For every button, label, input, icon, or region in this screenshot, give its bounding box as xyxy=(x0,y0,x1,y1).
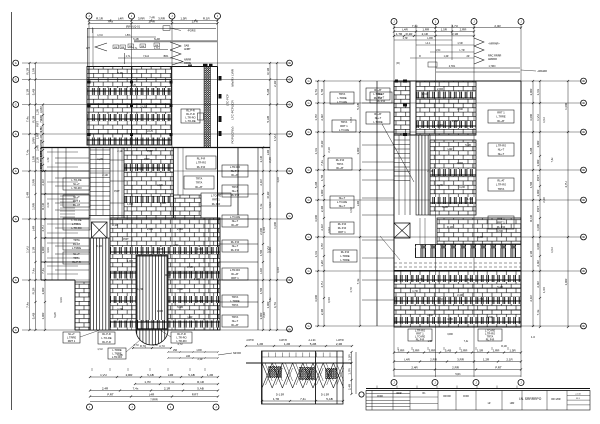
svg-text:1,7R: 1,7R xyxy=(137,287,143,291)
big bottom brick block xyxy=(110,218,220,330)
detail small circle xyxy=(359,392,364,397)
svg-text:2,1R: 2,1R xyxy=(506,358,513,362)
svg-text:1,5C: 1,5C xyxy=(436,50,441,52)
svg-text:5,AB: 5,AB xyxy=(326,397,333,401)
svg-text:2-U5: 2-U5 xyxy=(147,129,153,133)
svg-text:NL+T: NL+T xyxy=(232,189,239,193)
left plan grid bubbles bottom xyxy=(87,404,93,410)
svg-text:L4R: L4R xyxy=(186,356,191,358)
svg-text:7,4x: 7,4x xyxy=(536,309,540,315)
svg-text:G: G xyxy=(308,236,310,239)
svg-text:3,RR: 3,RR xyxy=(60,297,63,303)
svg-text:L4R: L4R xyxy=(149,393,155,397)
svg-text:1,VU: 1,VU xyxy=(26,246,30,253)
svg-text:2,RR: 2,RR xyxy=(529,88,533,96)
svg-text:2,4R: 2,4R xyxy=(36,145,40,151)
svg-text:1,2R: 1,2R xyxy=(348,354,352,361)
svg-text:1,7L: 1,7L xyxy=(126,55,131,58)
svg-text:2,RR: 2,RR xyxy=(430,358,438,362)
dashed lines xyxy=(394,262,521,264)
svg-text:R,1R: R,1R xyxy=(406,32,414,36)
left plan grid bubbles left column xyxy=(13,60,19,66)
svg-text:RL-AT: RL-AT xyxy=(336,166,344,170)
svg-text:2,RR: 2,RR xyxy=(126,373,134,377)
svg-text:5,R1: 5,R1 xyxy=(455,373,461,376)
svg-text:RL.P-R: RL.P-R xyxy=(186,112,195,116)
svg-text:RL.P-R: RL.P-R xyxy=(186,109,195,113)
svg-text:1,VU: 1,VU xyxy=(422,92,428,96)
svg-text:G: G xyxy=(308,270,310,273)
mid brick right extension xyxy=(174,195,202,218)
svg-text:RL-AT: RL-AT xyxy=(497,119,505,123)
svg-text:7,4x: 7,4x xyxy=(169,380,175,384)
svg-text:5,AB: 5,AB xyxy=(529,148,533,155)
svg-text:1,7RO: 1,7RO xyxy=(489,65,496,68)
central mid brick block xyxy=(124,148,174,219)
svg-text:1,5R: 1,5R xyxy=(32,155,36,162)
svg-text:2,4R: 2,4R xyxy=(320,308,324,315)
svg-text:1,5R: 1,5R xyxy=(457,107,463,111)
svg-text:1,RR: 1,RR xyxy=(564,102,568,110)
svg-text:NL+T: NL+T xyxy=(73,182,80,186)
leader crossing xyxy=(382,124,414,182)
dark dashes above strip xyxy=(203,64,208,66)
leader to label PORS xyxy=(170,28,181,31)
svg-text:xRR: xRR xyxy=(510,403,515,405)
table row lines left block xyxy=(366,393,410,395)
svg-text:1,2R: 1,2R xyxy=(257,342,264,346)
detail main box xyxy=(262,351,344,404)
svg-text:R,1R: R,1R xyxy=(266,191,270,199)
svg-text:3,RR: 3,RR xyxy=(328,297,331,303)
svg-text:2R: 2R xyxy=(467,56,470,58)
svg-text:1,RR: 1,RR xyxy=(543,287,546,293)
svg-text:2,1R: 2,1R xyxy=(102,173,108,177)
svg-text:N,AR: N,AR xyxy=(154,38,160,41)
svg-text:1,5R: 1,5R xyxy=(180,17,187,21)
svg-text:L.TRRE: L.TRRE xyxy=(373,120,382,124)
svg-text:G: G xyxy=(15,62,17,65)
svg-text:1,2R: 1,2R xyxy=(157,247,163,251)
svg-text:G: G xyxy=(308,80,310,83)
svg-text:1,7R: 1,7R xyxy=(417,277,423,281)
svg-text:2,4R: 2,4R xyxy=(494,24,501,28)
svg-text:1,7R: 1,7R xyxy=(348,368,352,375)
detail right vdim xyxy=(351,352,353,394)
svg-text:L.TRRE: L.TRRE xyxy=(67,336,76,340)
svg-text:R,1R: R,1R xyxy=(96,17,104,21)
svg-text:G: G xyxy=(15,279,17,282)
svg-text:G: G xyxy=(308,325,310,328)
svg-text:2,RR: 2,RR xyxy=(41,287,45,295)
svg-text:RRT 1: RRT 1 xyxy=(497,216,505,220)
svg-text:RL-AT: RL-AT xyxy=(73,203,81,207)
corridor column markers xyxy=(403,80,407,83)
svg-text:RL.P-R: RL.P-R xyxy=(231,248,240,252)
svg-text:G: G xyxy=(289,62,291,65)
leader arrow far right xyxy=(521,70,536,71)
svg-text:1,RR: 1,RR xyxy=(127,202,133,206)
svg-text:NL+T: NL+T xyxy=(498,152,505,156)
svg-text:R RR: R RR xyxy=(463,396,469,398)
svg-text:L.TO-RE: L.TO-RE xyxy=(230,215,240,219)
svg-text:3,RR: 3,RR xyxy=(314,214,318,222)
right plan left label boxes xyxy=(330,92,354,104)
svg-text:3,RR: 3,RR xyxy=(447,333,453,336)
svg-text:G: G xyxy=(583,169,585,172)
circular bay + vertical hatch xyxy=(136,255,168,330)
svg-text:TRTA: TRTA xyxy=(73,238,80,242)
svg-text:R,1R: R,1R xyxy=(41,202,45,210)
svg-text:7,4x: 7,4x xyxy=(26,302,30,308)
svg-text:R,1R: R,1R xyxy=(32,115,36,123)
svg-text:~RRsRR: ~RRsRR xyxy=(537,70,547,73)
svg-text:2,1R: 2,1R xyxy=(259,155,263,162)
right plan right dim lines xyxy=(532,81,534,327)
svg-text:RL.P-R: RL.P-R xyxy=(338,226,347,230)
mid corridor lines xyxy=(177,148,179,196)
small marks above body xyxy=(428,62,437,67)
svg-text:1,VU: 1,VU xyxy=(273,134,277,141)
svg-text:RL.P-R: RL.P-R xyxy=(338,222,347,226)
svg-text:RL-AT: RL-AT xyxy=(231,173,239,177)
left plan right dim lines xyxy=(262,148,264,331)
svg-text:/Wx/RX L\RR: /Wx/RX L\RR xyxy=(231,68,235,87)
right bottom dims xyxy=(397,347,399,350)
svg-text:2,RR: 2,RR xyxy=(437,87,443,91)
body left edge xyxy=(40,148,42,281)
right wing label boxes xyxy=(222,165,248,177)
svg-text:RL-AT: RL-AT xyxy=(73,242,81,246)
svg-text:2,1R: 2,1R xyxy=(273,80,277,87)
svg-text:1,2R: 1,2R xyxy=(277,177,280,182)
svg-text:RR RR: RR RR xyxy=(443,396,451,398)
svg-text:G: G xyxy=(308,131,310,134)
svg-text:RL.P-R: RL.P-R xyxy=(231,169,240,173)
leaders xyxy=(80,330,100,337)
svg-text:5,AB: 5,AB xyxy=(356,103,360,110)
svg-text:2,4R: 2,4R xyxy=(269,247,272,252)
svg-text:7,4x: 7,4x xyxy=(259,203,263,209)
svg-text:2,1R: 2,1R xyxy=(328,147,331,152)
svg-text:2,1R: 2,1R xyxy=(26,88,30,95)
right top short verticals xyxy=(415,25,417,82)
svg-text:TRTA: TRTA xyxy=(73,256,80,260)
svg-text:7,4x: 7,4x xyxy=(133,387,139,391)
left outside label boxes xyxy=(366,88,390,100)
label box right of brick xyxy=(181,109,200,123)
diagonal hatch strip xyxy=(204,67,211,148)
RB4 big bottom brick xyxy=(394,271,521,327)
svg-text:1,VU: 1,VU xyxy=(314,148,318,155)
svg-text:1,5R: 1,5R xyxy=(487,315,493,319)
right plan grid bubbles bottom xyxy=(391,380,397,386)
svg-text:G: G xyxy=(15,218,17,221)
svg-text:RL.P-R: RL.P-R xyxy=(231,240,240,244)
svg-text:RL.P-R: RL.P-R xyxy=(497,225,506,229)
svg-text:7,4x: 7,4x xyxy=(26,116,30,122)
bottom-left brick block xyxy=(75,282,110,330)
svg-text:RRT 1: RRT 1 xyxy=(497,221,505,225)
svg-text:5,AB: 5,AB xyxy=(465,143,471,147)
svg-text:TRTA: TRTA xyxy=(196,181,203,185)
svg-text:5,AB: 5,AB xyxy=(197,387,204,391)
svg-text:A,7U: A,7U xyxy=(159,344,165,348)
svg-text:3,RR: 3,RR xyxy=(356,147,360,155)
svg-text:1,7R: 1,7R xyxy=(320,88,324,95)
svg-text:7,4x: 7,4x xyxy=(26,149,30,155)
svg-text:1,7L: 1,7L xyxy=(133,47,138,50)
svg-text:R,1R: R,1R xyxy=(203,17,211,21)
svg-text:2,4R: 2,4R xyxy=(320,205,324,212)
svg-text:7,4x: 7,4x xyxy=(412,24,418,28)
body right wing edge xyxy=(257,148,259,331)
detail bottom dim xyxy=(262,400,343,402)
svg-text:1,7R: 1,7R xyxy=(396,32,403,36)
right plan corridor lines xyxy=(424,218,426,244)
left rooms: horizontal dividers xyxy=(41,170,89,172)
svg-text:L.TRRE: L.TRRE xyxy=(337,96,346,100)
svg-text:L.TRRE: L.TRRE xyxy=(72,246,81,250)
svg-text:G: G xyxy=(289,133,291,136)
svg-text:L4R: L4R xyxy=(174,243,179,247)
svg-text:R,1R: R,1R xyxy=(266,67,270,75)
svg-text:1,VU: 1,VU xyxy=(551,247,554,253)
svg-text:1,VR: 1,VR xyxy=(457,42,463,45)
svg-text:4,7U: 4,7U xyxy=(39,127,43,133)
svg-text:G: G xyxy=(583,80,585,83)
svg-text:1,5R: 1,5R xyxy=(157,183,163,187)
svg-text:1,VU: 1,VU xyxy=(536,114,540,121)
svg-text:P,RT: P,RT xyxy=(114,189,120,193)
svg-text:2,7R1: 2,7R1 xyxy=(449,65,456,68)
table right small block xyxy=(567,394,590,396)
svg-text:NL+T: NL+T xyxy=(339,196,346,200)
svg-text:2,4R: 2,4R xyxy=(411,366,418,370)
right plan small rooms upper-left xyxy=(362,102,394,104)
svg-text:G: G xyxy=(308,102,310,105)
left leader arrow xyxy=(95,43,107,51)
svg-text:R RR: R RR xyxy=(377,396,383,398)
svg-text:7,4x: 7,4x xyxy=(41,268,45,274)
svg-text:G: G xyxy=(583,270,585,273)
svg-text:RR: RR xyxy=(121,47,125,49)
svg-text:G: G xyxy=(583,131,585,134)
svg-text:RRT 1: RRT 1 xyxy=(340,124,348,128)
svg-text:RR: RR xyxy=(114,47,118,49)
mid horizontal annotation lines xyxy=(430,51,474,53)
svg-text:L4R: L4R xyxy=(39,139,43,144)
svg-text:2,RR: 2,RR xyxy=(461,349,469,353)
svg-text:5,AB: 5,AB xyxy=(445,349,452,353)
svg-text:L4R: L4R xyxy=(259,267,263,273)
svg-text:D-1.5R: D-1.5R xyxy=(276,393,284,397)
svg-text:NL+T: NL+T xyxy=(339,204,346,208)
svg-text:2,1R: 2,1R xyxy=(422,32,429,36)
svg-text:1,2R: 1,2R xyxy=(320,260,324,267)
svg-text:2,1R: 2,1R xyxy=(32,246,36,253)
svg-text:TRTA: TRTA xyxy=(196,176,203,180)
svg-text:3,RR: 3,RR xyxy=(277,267,280,273)
svg-text:TRTA: TRTA xyxy=(232,295,239,299)
svg-text:4,7U: 4,7U xyxy=(437,297,443,301)
svg-text:5,AB: 5,AB xyxy=(32,89,36,96)
svg-text:1,2R: 1,2R xyxy=(459,185,465,189)
svg-text:1,VU: 1,VU xyxy=(350,207,353,213)
svg-text:2-U5: 2-U5 xyxy=(130,83,136,87)
svg-text:1,VU: 1,VU xyxy=(350,117,353,123)
svg-text:G: G xyxy=(289,79,291,82)
svg-text:RL.P-R: RL.P-R xyxy=(212,202,221,206)
svg-text:G: G xyxy=(15,329,17,332)
svg-text:1,2R: 1,2R xyxy=(207,373,214,377)
svg-text:RL.P-R: RL.P-R xyxy=(72,260,81,264)
svg-text:L.TR-RO: L.TR-RO xyxy=(185,116,195,120)
svg-text:NL+T: NL+T xyxy=(232,219,239,223)
svg-text:RL.P-R: RL.P-R xyxy=(102,332,111,336)
gray band xyxy=(134,40,217,42)
svg-text:3,RR: 3,RR xyxy=(39,106,43,114)
svg-text:L.TO-RE: L.TO-RE xyxy=(71,178,81,182)
detail: top dim line xyxy=(246,345,352,347)
svg-text:RL-AT: RL-AT xyxy=(231,223,239,227)
RB2 brick mid xyxy=(430,140,476,215)
svg-text:3,RR: 3,RR xyxy=(320,189,324,197)
svg-text:G: G xyxy=(289,104,291,107)
RB1 brick upper xyxy=(416,81,476,135)
svg-text:POP|3CR|V): POP|3CR|V) xyxy=(231,127,235,144)
header course bands xyxy=(87,88,172,95)
svg-text:1,7R: 1,7R xyxy=(402,37,407,40)
svg-text:5,AB: 5,AB xyxy=(32,313,36,320)
svg-text:5,AB: 5,AB xyxy=(188,373,195,377)
svg-text:7,4x: 7,4x xyxy=(300,397,306,401)
svg-text:L.TRRE: L.TRRE xyxy=(340,258,349,262)
svg-text:4,7U: 4,7U xyxy=(177,343,182,346)
svg-text:L,TR: L,TR xyxy=(460,50,465,52)
svg-text:L.TRRE: L.TRRE xyxy=(112,348,121,352)
svg-text:RL-AT: RL-AT xyxy=(374,88,382,92)
svg-text:RL.P-R: RL.P-R xyxy=(197,165,206,169)
svg-text:P,RT: P,RT xyxy=(536,206,540,213)
svg-text:R,1R: R,1R xyxy=(451,32,459,36)
svg-text:LTC-PCP|3CR: LTC-PCP|3CR xyxy=(231,99,235,119)
svg-text:L.TR-RO: L.TR-RO xyxy=(71,226,81,230)
svg-text:1,VU: 1,VU xyxy=(269,202,272,208)
svg-text:G: G xyxy=(308,199,310,202)
svg-text:L4R: L4R xyxy=(188,315,193,319)
svg-text:5,AB: 5,AB xyxy=(442,205,448,209)
svg-text:2,4R: 2,4R xyxy=(336,342,343,346)
svg-text:1,5R: 1,5R xyxy=(441,28,448,32)
svg-text:1,RR: 1,RR xyxy=(422,28,430,32)
svg-text:1,5R: 1,5R xyxy=(509,349,516,353)
svg-text:G: G xyxy=(15,104,17,107)
svg-text:2,RR: 2,RR xyxy=(452,366,460,370)
table vertical dividers xyxy=(371,391,373,411)
svg-text:5,AB: 5,AB xyxy=(314,182,318,189)
svg-text:|R|: |R| xyxy=(397,62,400,65)
arc dim line xyxy=(133,347,171,349)
svg-text:3,RR: 3,RR xyxy=(197,247,203,251)
svg-text:1,7R: 1,7R xyxy=(144,380,151,384)
sheet left border xyxy=(11,12,13,410)
column markers xyxy=(88,81,91,84)
svg-text:7,4R: 7,4R xyxy=(149,16,155,20)
right bottom labels xyxy=(408,329,432,341)
svg-text:R,1R: R,1R xyxy=(501,345,507,348)
svg-text:2,1R: 2,1R xyxy=(529,250,533,257)
svg-text:L4R: L4R xyxy=(356,200,360,206)
svg-text:TRTA: TRTA xyxy=(232,303,239,307)
svg-text:3,RR: 3,RR xyxy=(536,159,540,167)
svg-text:RL-AT: RL-AT xyxy=(374,112,382,116)
svg-text:1,7R: 1,7R xyxy=(273,397,280,401)
svg-text:1,RR: 1,RR xyxy=(157,309,163,313)
svg-text:2,RR: 2,RR xyxy=(460,28,468,32)
svg-text:TRTA: TRTA xyxy=(498,187,505,191)
svg-text:1,7R: 1,7R xyxy=(39,115,43,121)
svg-text:1,VU: 1,VU xyxy=(97,348,103,351)
svg-text:L4R: L4R xyxy=(428,340,433,343)
svg-text:7,4x: 7,4x xyxy=(320,160,324,166)
svg-text:RL.P-R: RL.P-R xyxy=(377,99,386,103)
stair X box xyxy=(92,222,108,238)
svg-text:RR: RR xyxy=(141,46,145,48)
svg-text:L.TR-RO: L.TR-RO xyxy=(496,143,506,147)
svg-text:G: G xyxy=(15,79,17,82)
svg-text:RL-AT: RL-AT xyxy=(231,272,239,276)
svg-text:ANBT: ANBT xyxy=(184,48,191,51)
svg-text:L,7L1: L,7L1 xyxy=(154,47,161,50)
svg-text:P,RT: P,RT xyxy=(495,366,502,370)
svg-text:L.TO-RE: L.TO-RE xyxy=(185,119,195,123)
left plan top dimension lines xyxy=(89,22,218,24)
body widening bold line xyxy=(41,147,270,149)
svg-text:3,RR: 3,RR xyxy=(398,349,406,353)
svg-text:RL-AT: RL-AT xyxy=(195,185,203,189)
svg-text:7,4x: 7,4x xyxy=(551,157,554,162)
svg-text:LTC-PCP: LTC-PCP xyxy=(226,94,230,106)
svg-text:2,4R: 2,4R xyxy=(26,191,30,198)
svg-text:NL+T: NL+T xyxy=(232,244,239,248)
svg-text:RL-AT: RL-AT xyxy=(497,178,505,182)
svg-text:RL.P-R: RL.P-R xyxy=(336,158,345,162)
svg-text:4,7U: 4,7U xyxy=(452,24,458,28)
svg-text:2,1R: 2,1R xyxy=(36,157,40,163)
small stair mid xyxy=(60,195,75,197)
svg-text:G: G xyxy=(583,102,585,105)
svg-text:R,1R: R,1R xyxy=(467,277,473,281)
svg-text:RL.P-R: RL.P-R xyxy=(341,250,350,254)
svg-text:G: G xyxy=(289,170,291,173)
svg-text:L5%: L5% xyxy=(125,34,131,37)
svg-text:TRTA: TRTA xyxy=(339,92,346,96)
svg-text:1,7R: 1,7R xyxy=(320,174,324,181)
svg-text:G: G xyxy=(308,169,310,172)
left plan grid bubbles right column xyxy=(287,60,293,66)
right top leaders to labels xyxy=(474,38,484,46)
svg-text:L.TRRE: L.TRRE xyxy=(496,115,505,119)
bottom leader label boxes xyxy=(63,332,80,343)
left label boxes column xyxy=(63,178,90,190)
svg-text:7,4x: 7,4x xyxy=(269,297,272,302)
colonnade row xyxy=(415,245,521,258)
svg-text:R,1R: R,1R xyxy=(112,223,118,227)
svg-text:3,RR: 3,RR xyxy=(32,137,36,145)
svg-text:R,1R: R,1R xyxy=(197,380,205,384)
svg-text:1,5R: 1,5R xyxy=(259,287,263,294)
